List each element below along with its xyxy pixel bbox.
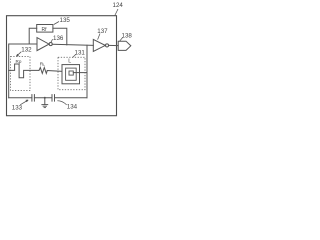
- wire coil out: [73, 72, 87, 74]
- svg-text:L: L: [68, 59, 71, 65]
- wire right tank vertical: [86, 45, 88, 98]
- svg-text:124: 124: [113, 2, 124, 9]
- ground bars: [42, 104, 48, 106]
- inductor L spiral middle turn: [66, 68, 77, 80]
- junction dot ground tap: [44, 97, 46, 99]
- svg-text:133: 133: [12, 105, 23, 112]
- leader 124: [115, 9, 118, 16]
- wire bottom middle: [34, 97, 52, 99]
- bubble inverter 137: [105, 44, 108, 47]
- resonator 132 meander: [9, 64, 39, 78]
- resistor Rf box: [37, 25, 53, 33]
- svg-text:135: 135: [60, 17, 71, 24]
- leader 138: [120, 38, 123, 42]
- svg-text:L: L: [43, 63, 45, 67]
- svg-text:Rp: Rp: [16, 59, 22, 64]
- dashed box resonator 132: [11, 57, 31, 91]
- bubble inverter 136: [49, 43, 52, 46]
- svg-text:138: 138: [122, 33, 133, 40]
- capacitor C134 plates: [51, 95, 53, 102]
- wire Rf left feedback: [29, 28, 37, 44]
- wire inverter 137 output: [109, 44, 119, 46]
- wire output rail: [52, 44, 93, 45]
- leader 133 arrow: [20, 100, 28, 105]
- resistor RL zigzag: [39, 68, 47, 74]
- svg-text:136: 136: [53, 35, 64, 42]
- ground stub: [44, 98, 46, 105]
- svg-text:132: 132: [21, 47, 32, 54]
- svg-text:137: 137: [97, 28, 108, 35]
- wire bottom right: [55, 97, 88, 99]
- leader 134: [57, 101, 66, 105]
- wire bottom left: [9, 97, 32, 99]
- output terminal 138: [118, 41, 131, 50]
- leader 135: [54, 22, 59, 25]
- wire Rf right feedback: [53, 28, 67, 45]
- op-amp U2 inverter 137: [93, 39, 105, 51]
- wire inverter input rail: [9, 44, 37, 98]
- svg-text:134: 134: [67, 104, 78, 111]
- leader 136: [51, 39, 53, 42]
- dashed box inductor 131: [58, 57, 85, 89]
- capacitor C133 plates: [31, 95, 33, 102]
- svg-text:131: 131: [75, 50, 86, 57]
- wire RL to coil: [47, 70, 62, 73]
- op-amp U1 inverter 136: [37, 38, 49, 51]
- inductor L spiral outer turn: [62, 65, 80, 84]
- svg-text:Rf: Rf: [42, 27, 48, 33]
- leader 132 arrow: [16, 52, 21, 56]
- leader 131: [72, 55, 75, 58]
- inductor L spiral center: [69, 71, 73, 75]
- package outline 124: [7, 16, 117, 116]
- leader 137: [98, 34, 100, 40]
